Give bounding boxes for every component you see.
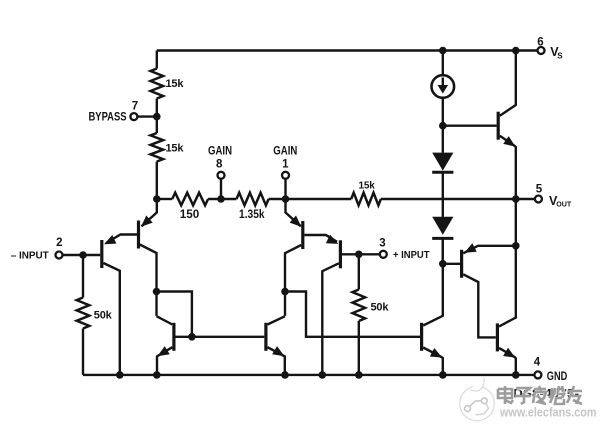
- transistor Q9 emitter: [463, 246, 516, 254]
- transistor Q1 collector: [103, 263, 119, 375]
- transistor Q10 base bar: [496, 323, 499, 351]
- wire Q2 base to Q1 emitter: [106, 235, 137, 244]
- svg-text:GND: GND: [547, 371, 568, 383]
- svg-text:1.35k: 1.35k: [239, 209, 265, 221]
- transistor Q8 emitter: [500, 136, 516, 199]
- pin 7 BYPASS terminal: [89, 101, 139, 124]
- node mirror left collector junction: [153, 288, 161, 296]
- svg-text:OUT: OUT: [556, 200, 571, 209]
- pin 1 GAIN terminal: [273, 146, 297, 179]
- transistor Q6 emitter: [268, 347, 285, 375]
- transistor Q4 collector: [322, 263, 339, 375]
- resistor R7 50k: [353, 290, 390, 322]
- node left emitter junction: [153, 195, 161, 203]
- wire emitter-node to R3: [157, 198, 172, 200]
- node Q3 Q6 collector junction: [281, 288, 289, 296]
- svg-text:4: 4: [534, 357, 541, 369]
- node bypass junction: [153, 113, 161, 121]
- transistor Q10 emitter: [499, 348, 516, 375]
- transistor Q6 emitter arrow: [272, 346, 284, 356]
- transistor Q5 emitter: [157, 347, 172, 375]
- transistor Q1 base bar: [100, 240, 103, 268]
- wire R3 to gain8 node: [208, 198, 236, 200]
- node Q1 collector ground junction: [116, 371, 124, 379]
- transistor Q3 base bar: [301, 221, 304, 249]
- svg-text:15k: 15k: [166, 78, 185, 90]
- svg-text:S: S: [557, 51, 563, 60]
- node Q9 base junction: [439, 260, 447, 268]
- pin 8 GAIN terminal: [208, 146, 232, 179]
- transistor Q10 collector: [499, 246, 516, 327]
- svg-text:5: 5: [536, 184, 543, 196]
- svg-text:+ INPUT: + INPUT: [393, 249, 430, 261]
- wire pin2 node down to R6: [82, 255, 84, 298]
- watermark logo: [460, 377, 495, 421]
- wire D2 to Q9 base node: [442, 238, 444, 263]
- node current source output junction: [439, 122, 447, 130]
- transistor Q4 base bar: [339, 240, 342, 268]
- watermark url text: [499, 405, 596, 420]
- wire R6 to ground rail: [82, 329, 84, 375]
- wire between R1 and R2: [156, 99, 158, 134]
- wire current source to Q8 base: [443, 124, 497, 126]
- svg-text:50k: 50k: [94, 310, 113, 322]
- svg-text:8: 8: [216, 158, 223, 170]
- transistor Q7 base bar: [420, 323, 423, 351]
- pin 2 minus input terminal: [11, 237, 63, 261]
- transistor Q10 emitter arrow: [503, 348, 515, 358]
- resistor R5 15k feedback: [351, 181, 381, 206]
- svg-text:7: 7: [132, 101, 138, 113]
- resistor R1 15k: [151, 69, 185, 99]
- node Q4 collector ground junction: [319, 371, 327, 379]
- wire ground rail: [83, 374, 534, 376]
- transistor Q6 collector: [268, 316, 286, 324]
- pin 4 GND terminal: [534, 357, 568, 384]
- svg-text:www.elecfans.com: www.elecfans.com: [499, 405, 596, 420]
- svg-text:BYPASS: BYPASS: [89, 111, 127, 123]
- node gain8 junction: [217, 195, 225, 203]
- diode D2: [432, 217, 453, 239]
- wire pin2 to Q1 base: [63, 254, 101, 256]
- transistor Q4 emitter arrow: [326, 235, 338, 244]
- transistor Q3 collector: [285, 245, 301, 316]
- wire pin7 to bias chain: [137, 115, 156, 117]
- node composite output junction: [512, 242, 520, 250]
- svg-text:3: 3: [379, 237, 385, 249]
- transistor Q3 emitter: [286, 199, 301, 226]
- wire R4 to gain1 node: [269, 198, 352, 200]
- wire mirror output to Q7 base: [285, 292, 420, 337]
- svg-text:– INPUT: – INPUT: [11, 249, 50, 261]
- resistor R3 150: [172, 193, 208, 221]
- node R7 ground junction: [355, 371, 363, 379]
- svg-text:50k: 50k: [371, 302, 390, 314]
- diode D1: [432, 153, 453, 173]
- transistor Q2 base bar: [137, 221, 140, 249]
- pin 6 VS terminal: [537, 36, 563, 60]
- node Q8 collector supply junction: [512, 47, 520, 55]
- transistor Q5 emitter arrow: [157, 346, 169, 356]
- svg-text:1: 1: [282, 158, 289, 170]
- wire pin1 down to node: [284, 179, 286, 199]
- wire pin3 node to R7: [358, 254, 360, 289]
- transistor Q8 collector: [500, 51, 516, 116]
- node gain1 junction: [282, 195, 290, 203]
- node mirror base tie junction: [188, 333, 196, 341]
- transistor Q5 collector: [157, 316, 173, 324]
- node Q6 emitter ground junction: [281, 371, 289, 379]
- pin 5 VOUT terminal: [535, 184, 572, 209]
- transistor Q7 collector: [423, 239, 443, 326]
- transistor Q7 emitter: [423, 348, 443, 375]
- transistor Q2 emitter arrow: [141, 216, 153, 227]
- node Q5 emitter ground junction: [153, 371, 161, 379]
- svg-text:150: 150: [180, 209, 200, 221]
- node Q7 emitter ground junction: [439, 371, 447, 379]
- wire top supply rail: [157, 49, 537, 51]
- wire D1 to D2: [442, 174, 444, 217]
- wire Q4 base to pin3: [342, 253, 380, 255]
- transistor Q6 mirror base bar: [264, 323, 267, 351]
- wire left bias chain top segment: [156, 51, 158, 69]
- wire mirror left diode tie: [157, 292, 192, 337]
- svg-text:15k: 15k: [359, 181, 376, 192]
- node pin2 junction: [79, 251, 87, 259]
- wire Q9 base: [443, 263, 460, 265]
- svg-text:GAIN: GAIN: [208, 146, 232, 158]
- transistor Q9 emitter arrow: [464, 243, 476, 253]
- transistor Q1 emitter arrow: [104, 235, 116, 244]
- transistor Q8 emitter arrow: [503, 136, 515, 147]
- wire R5 to output line: [381, 198, 534, 200]
- svg-text:6: 6: [537, 36, 543, 48]
- transistor Q9 collector: [463, 274, 496, 337]
- wire R7 to ground rail: [358, 321, 360, 375]
- wire output to composite node: [515, 199, 517, 246]
- pin 3 plus input terminal: [379, 237, 430, 261]
- transistor Q9 base bar: [460, 250, 463, 278]
- node supply current source junction: [439, 47, 447, 55]
- svg-text:GAIN: GAIN: [273, 146, 297, 158]
- wire mirror base line: [176, 336, 265, 338]
- resistor R4 1.35k: [237, 193, 269, 221]
- node output line junction: [512, 195, 520, 203]
- transistor Q2 collector: [140, 245, 157, 316]
- transistor Q5 mirror base bar: [172, 323, 175, 351]
- node Q10 emitter ground junction: [512, 371, 520, 379]
- node pin3 junction: [355, 251, 363, 259]
- current source I1: [432, 51, 455, 153]
- svg-text:15k: 15k: [166, 143, 185, 155]
- wire R2 to emitter node: [156, 162, 158, 200]
- transistor Q8 base bar: [497, 112, 500, 140]
- resistor R6 50k: [77, 298, 113, 329]
- svg-text:2: 2: [56, 237, 62, 249]
- label figure number: [513, 386, 579, 400]
- wire pin8 down to node: [220, 179, 222, 199]
- transistor Q3 base wire to Q4: [304, 235, 337, 242]
- transistor Q2 emitter: [142, 199, 157, 226]
- resistor R2 15k: [151, 133, 185, 162]
- transistor Q3 emitter arrow: [290, 216, 302, 227]
- transistor Q7 emitter arrow: [430, 348, 442, 358]
- watermark chinese text: [498, 386, 582, 404]
